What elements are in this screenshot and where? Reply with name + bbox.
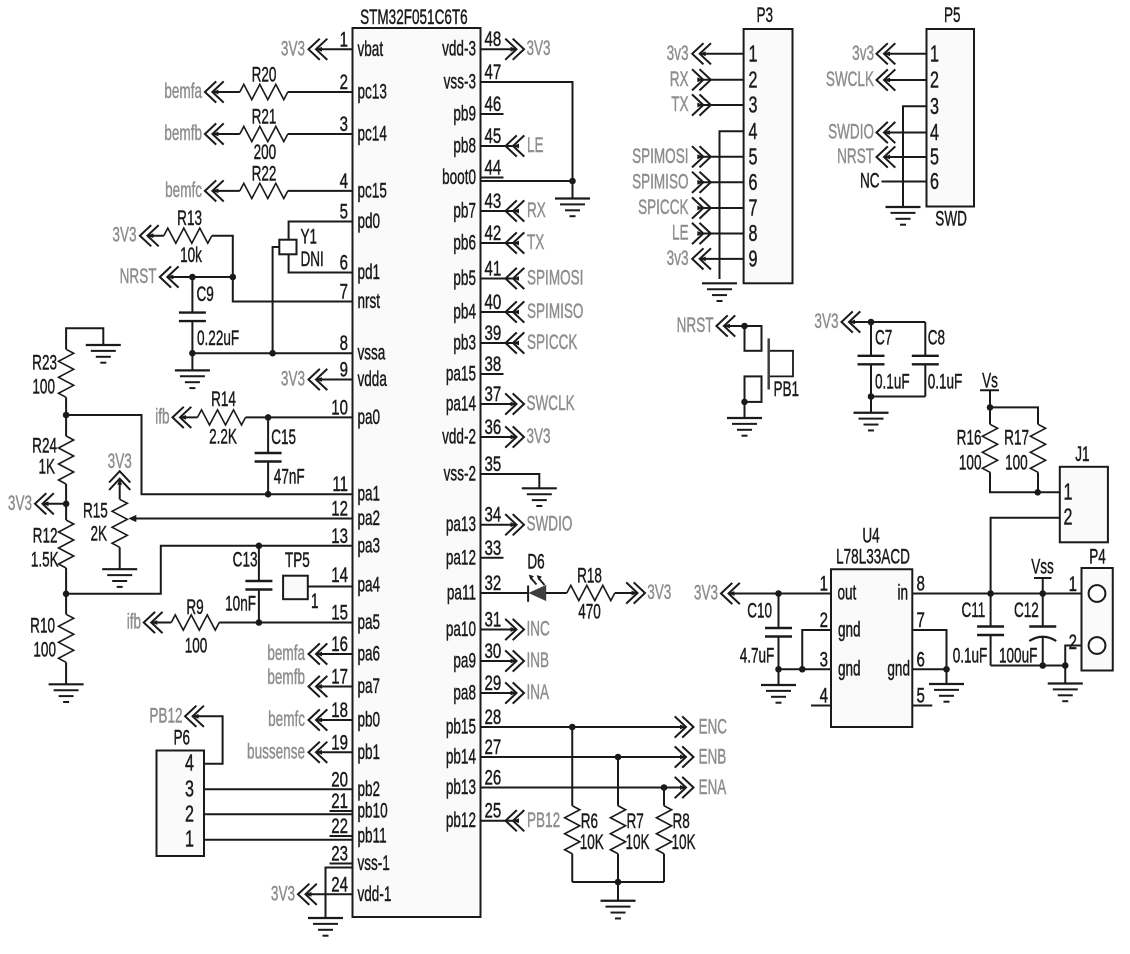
ground at P3	[702, 282, 737, 284]
net 3V3 arrow at pin 1	[281, 36, 327, 60]
svg-text:SPIMOSI: SPIMOSI	[527, 265, 583, 289]
svg-text:R14: R14	[211, 387, 236, 411]
U1 pin 2 pc13	[340, 69, 387, 103]
wire ifb to R9	[151, 622, 171, 624]
junction P4-gnd bus	[1062, 662, 1069, 669]
capacitor C13	[225, 546, 272, 623]
wire P6 pin3 to pb2 pin 20	[204, 788, 353, 790]
connector P4	[1082, 544, 1113, 670]
svg-text:P6: P6	[174, 725, 191, 749]
net INB arrow	[505, 648, 549, 672]
svg-text:vdd-3: vdd-3	[442, 37, 476, 61]
svg-text:47nF: 47nF	[274, 464, 305, 488]
U1 pin 22 pb11	[330, 813, 387, 847]
svg-text:2: 2	[340, 69, 348, 93]
U1 pin 46 pb9	[453, 91, 503, 125]
svg-text:pa9: pa9	[453, 648, 476, 672]
svg-text:R22: R22	[252, 161, 277, 185]
svg-text:pb11: pb11	[358, 823, 387, 847]
U1 pin 10 pa0	[331, 395, 380, 429]
wire U4 gnd to ground	[946, 669, 948, 684]
svg-text:11: 11	[332, 472, 348, 496]
ground at C9	[175, 369, 210, 371]
net 3v3 arrow at P5	[852, 41, 895, 65]
resistor R9	[171, 595, 219, 657]
capacitor C15	[255, 417, 305, 494]
net PB12 arrow at pin 25	[506, 808, 561, 832]
wire 3v3 to P5	[884, 53, 927, 55]
wire ENC to R6	[571, 727, 573, 806]
U1 pin 6 pd1	[340, 250, 380, 284]
capacitor C11	[953, 594, 1004, 668]
net 3v3 arrow at P3	[667, 41, 711, 65]
svg-text:pb2: pb2	[358, 777, 381, 801]
U1 pin 21 pb10	[330, 788, 388, 822]
svg-text:2: 2	[1069, 629, 1077, 653]
svg-text:TX: TX	[671, 92, 688, 116]
svg-text:C9: C9	[197, 282, 214, 306]
junction NRST-PB1	[741, 323, 748, 330]
U1 pin 27 pb14	[446, 734, 501, 768]
ground at PB1	[727, 417, 762, 419]
net 3V3 arrow at ladder	[8, 491, 54, 515]
ground at C10	[761, 684, 796, 686]
junction NRST-C9	[189, 274, 196, 281]
svg-text:pb3: pb3	[453, 330, 476, 354]
svg-text:Vs: Vs	[982, 368, 998, 392]
net 3V3 arrow at U4	[694, 580, 740, 604]
wire RX to P3	[703, 79, 743, 81]
junction 3V3-C10	[775, 590, 782, 597]
svg-text:1.5K: 1.5K	[31, 547, 59, 571]
svg-text:PB1: PB1	[774, 377, 800, 401]
net PB12 arrow at P6	[149, 703, 204, 727]
net LE arrow at P3	[672, 220, 711, 244]
svg-text:5: 5	[340, 199, 348, 223]
svg-text:0.1uF: 0.1uF	[953, 643, 988, 667]
svg-text:7: 7	[340, 279, 348, 303]
svg-text:INA: INA	[527, 680, 550, 704]
wire gnd bus to ground	[1064, 666, 1066, 684]
resistor R21	[240, 104, 288, 163]
net Vss label	[1031, 554, 1054, 578]
capacitor C12 (polarized)	[999, 594, 1056, 668]
U1 pin 14 pa4	[331, 562, 380, 596]
wire C7 to C8 top	[871, 321, 925, 323]
wire to ground boot0	[572, 181, 574, 199]
U1 pin 33 pa12	[446, 535, 504, 569]
svg-text:pc15: pc15	[358, 178, 387, 202]
wire Vss to in net	[1042, 578, 1044, 594]
svg-text:3v3: 3v3	[667, 246, 689, 270]
svg-text:R9: R9	[186, 595, 203, 619]
net SWCLK arrow	[505, 391, 574, 415]
svg-text:3V3: 3V3	[694, 580, 718, 604]
svg-text:vdda: vdda	[358, 367, 387, 391]
net SWCLK arrow at P5	[826, 67, 895, 91]
wire R15 to ground	[119, 547, 121, 569]
svg-text:3V3: 3V3	[527, 424, 551, 448]
svg-text:pa5: pa5	[358, 610, 381, 634]
wire pin to ENA	[481, 787, 687, 789]
svg-text:pa2: pa2	[358, 506, 381, 530]
junction R14-C15	[265, 414, 272, 421]
wire SWCLK pin	[481, 403, 517, 405]
svg-text:39: 39	[485, 320, 502, 344]
wire 3V3 to U4 out	[729, 593, 832, 595]
U1 pin 1 vbat	[340, 27, 383, 61]
U1 pin 5 pd0	[340, 199, 380, 233]
svg-text:C15: C15	[271, 425, 296, 449]
ground at P5	[886, 206, 921, 208]
junction gnd bus	[615, 879, 622, 886]
connector J1	[1060, 442, 1108, 542]
wire C11 C12 gnd bus	[991, 665, 1066, 667]
svg-text:470: 470	[578, 599, 601, 623]
svg-text:18: 18	[331, 697, 348, 721]
svg-text:pc14: pc14	[358, 121, 387, 145]
svg-text:29: 29	[485, 670, 502, 694]
net SPIMOSI arrow at P3	[632, 144, 711, 168]
wire NRST to PB1	[724, 325, 745, 327]
U1 pin 36 vdd-2	[442, 414, 501, 448]
svg-text:2.2K: 2.2K	[209, 424, 237, 448]
wire PB12 to P6 pin 4	[193, 716, 223, 763]
svg-text:pb6: pb6	[453, 230, 476, 254]
svg-text:bemfc: bemfc	[165, 178, 202, 202]
net bemfc arrow	[268, 707, 327, 731]
wire PB12 pin 25	[481, 820, 514, 822]
U1 pin 34 pa13	[446, 502, 501, 536]
ground at U4	[929, 683, 964, 685]
svg-text:41: 41	[485, 256, 502, 280]
U1 pin 48 vdd-3	[442, 27, 501, 61]
wire U4 pin2 gnd	[802, 630, 831, 669]
svg-text:C12: C12	[1014, 598, 1039, 622]
wire gnd bus to ground	[617, 882, 619, 901]
connector P5	[927, 3, 975, 207]
wire R24 to R12	[65, 484, 67, 520]
wire P6 pin2 to pb10 pin 21	[204, 813, 353, 815]
junction boot0-ground	[569, 178, 576, 185]
svg-text:Vss: Vss	[1031, 554, 1054, 578]
resistor R6	[565, 806, 604, 854]
junction 3V3 tap	[63, 501, 70, 508]
crystal Y1 (DNI)	[279, 224, 324, 270]
svg-text:pa14: pa14	[446, 391, 476, 415]
svg-text:TP5: TP5	[285, 548, 310, 572]
svg-text:vss-2: vss-2	[444, 461, 476, 485]
resistor R17	[1004, 424, 1045, 474]
svg-text:3V3: 3V3	[112, 223, 136, 247]
U1 pin 37 pa14	[446, 381, 501, 415]
resistor R10	[30, 613, 74, 662]
wire NC to P5 pin 6	[882, 181, 927, 183]
net Vs label	[980, 368, 999, 392]
net RX arrow at P3	[670, 67, 711, 91]
svg-text:2: 2	[749, 68, 758, 93]
svg-text:LE: LE	[672, 220, 689, 244]
svg-text:3V3: 3V3	[8, 491, 32, 515]
svg-text:45: 45	[485, 123, 502, 147]
net SPIMISO arrow	[506, 299, 584, 323]
svg-text:pb13: pb13	[446, 775, 476, 799]
wire RX pin	[481, 210, 514, 212]
net INC arrow	[505, 616, 550, 640]
wire SWDIO pin 34	[481, 524, 517, 526]
U1 pin 11 pa1	[332, 472, 380, 506]
U1 pin 42 pb6	[453, 220, 501, 254]
net NRST arrow	[120, 264, 179, 288]
svg-text:10K: 10K	[580, 830, 604, 854]
junction C7-ground	[868, 393, 875, 400]
svg-text:34: 34	[485, 502, 502, 526]
svg-text:bussense: bussense	[247, 739, 305, 763]
svg-text:12: 12	[331, 496, 348, 520]
wire SPIMOSI pin	[481, 278, 514, 280]
wire pin to ENC	[481, 726, 687, 728]
svg-text:SWCLK: SWCLK	[527, 391, 575, 415]
svg-text:SPIMISO: SPIMISO	[632, 169, 688, 193]
wire Vs to R16	[989, 407, 991, 424]
wire R16 bottom to J1 pin1	[990, 472, 1060, 492]
svg-text:R20: R20	[252, 62, 277, 86]
svg-text:7: 7	[917, 607, 925, 631]
svg-text:3: 3	[340, 111, 348, 135]
net ifb arrow at R9	[127, 609, 163, 633]
net SWDIO arrow	[505, 512, 572, 536]
svg-text:17: 17	[331, 664, 348, 688]
svg-text:3v3: 3v3	[667, 41, 689, 65]
resistor R12	[31, 520, 74, 571]
ground at vss-2	[522, 487, 557, 489]
wire R13 to nrst pin 7	[212, 236, 353, 302]
U1 pin 39 pb3	[453, 320, 501, 354]
wire bemfb to R21	[212, 133, 239, 135]
wire R12 to R10	[65, 568, 67, 614]
wire U4 pin6 gnd	[912, 668, 946, 670]
U1 pin 28 pb15	[446, 704, 501, 738]
wire R8 to gnd bus	[663, 854, 665, 882]
svg-text:pb12: pb12	[446, 808, 476, 832]
svg-text:pb15: pb15	[446, 714, 476, 738]
svg-text:SWDIO: SWDIO	[828, 119, 874, 143]
wire R15 wiper to pa2 pin 12	[135, 518, 352, 520]
wire R6 to gnd bus	[571, 854, 573, 882]
svg-text:15: 15	[331, 600, 348, 624]
svg-text:100uF: 100uF	[999, 643, 1037, 667]
wire ifb to R14	[180, 416, 198, 418]
svg-text:3: 3	[749, 93, 758, 118]
junction ENC-R6	[569, 724, 576, 731]
junction pin2-pin3 gnd	[799, 666, 806, 673]
push button PB1	[745, 326, 800, 402]
svg-text:16: 16	[331, 631, 348, 655]
svg-text:pa15: pa15	[446, 361, 476, 385]
svg-text:R10: R10	[30, 613, 55, 637]
wire 3V3 to ladder	[43, 503, 67, 505]
svg-text:2: 2	[930, 68, 939, 93]
wire vss-2 pin 35 to ground	[481, 474, 540, 488]
wire SWCLK to P5	[884, 79, 927, 81]
svg-text:NRST: NRST	[120, 264, 157, 288]
svg-text:8: 8	[340, 331, 348, 355]
svg-text:44: 44	[485, 155, 502, 179]
net TX arrow	[506, 230, 545, 254]
svg-text:10K: 10K	[626, 830, 650, 854]
svg-text:pb8: pb8	[453, 133, 476, 157]
svg-text:NRST: NRST	[837, 144, 874, 168]
junction 3V3-C7	[868, 319, 875, 326]
svg-text:bemfa: bemfa	[267, 641, 305, 665]
svg-text:LE: LE	[527, 133, 544, 157]
svg-text:pd1: pd1	[358, 260, 381, 284]
svg-text:4.7uF: 4.7uF	[740, 643, 775, 667]
svg-text:pb0: pb0	[358, 707, 381, 731]
svg-text:C13: C13	[233, 547, 258, 571]
svg-text:R23: R23	[32, 350, 57, 374]
wire SWDIO to P5	[884, 132, 927, 134]
svg-text:Y1: Y1	[301, 224, 318, 248]
svg-text:37: 37	[485, 381, 502, 405]
junction R17-J1	[1034, 489, 1041, 496]
svg-text:7: 7	[749, 196, 758, 221]
svg-text:1K: 1K	[38, 454, 55, 478]
wire R22 to pin 4	[288, 190, 353, 192]
wire 3V3 to R13	[147, 235, 163, 237]
net INA arrow	[505, 680, 549, 704]
svg-text:pc13: pc13	[358, 79, 387, 103]
U1 pin 30 pa9	[453, 638, 501, 672]
junction in-C12	[1039, 590, 1046, 597]
U1 pin 23 vss-1	[330, 841, 390, 875]
wire bussense pin	[316, 751, 353, 753]
svg-text:SWD: SWD	[935, 206, 967, 230]
junction in-C11	[987, 590, 994, 597]
svg-text:SWCLK: SWCLK	[826, 67, 874, 91]
wire INB pin	[481, 660, 517, 662]
wire ENB to R7	[617, 757, 619, 806]
U4 pin 5	[912, 683, 932, 707]
svg-text:1: 1	[340, 27, 348, 51]
wire U4 in to P4 pin1	[912, 593, 1088, 595]
net 3V3 arrow at pin 24	[271, 881, 317, 905]
svg-text:pa6: pa6	[358, 641, 381, 665]
junction ENA-R8	[661, 784, 668, 791]
svg-text:5: 5	[930, 145, 939, 170]
svg-text:pb1: pb1	[358, 740, 381, 764]
svg-text:C10: C10	[747, 598, 772, 622]
wire SPIMISO pin	[481, 311, 514, 313]
svg-text:28: 28	[485, 704, 502, 728]
svg-text:43: 43	[485, 188, 502, 212]
svg-text:4: 4	[185, 751, 194, 776]
wire R10 to ground	[65, 662, 67, 684]
svg-text:27: 27	[485, 734, 502, 758]
svg-text:6: 6	[930, 169, 939, 194]
wire R14 to pa0 pin 10	[246, 416, 353, 418]
junction Vs node	[987, 404, 994, 411]
junction R12-R10 tap	[63, 591, 70, 598]
net 3V3 arrow	[505, 424, 550, 448]
svg-text:2: 2	[185, 802, 194, 827]
svg-text:100: 100	[33, 637, 56, 661]
junction C9-vssa	[189, 350, 196, 357]
svg-text:9: 9	[749, 247, 758, 272]
U1 pin 29 pa8	[453, 670, 501, 704]
U1 pin 17 pa7	[331, 664, 380, 698]
svg-text:pa11: pa11	[447, 580, 476, 604]
wire 3V3 to C7	[849, 321, 871, 323]
svg-text:ENB: ENB	[699, 744, 727, 768]
svg-text:gnd: gnd	[838, 617, 861, 641]
svg-text:9: 9	[340, 357, 348, 381]
svg-text:R21: R21	[252, 104, 277, 128]
svg-text:STM32F051C6T6: STM32F051C6T6	[360, 5, 468, 29]
wire INC pin	[481, 629, 517, 631]
resistor R13	[164, 206, 212, 267]
svg-text:bemfb: bemfb	[164, 121, 202, 145]
svg-text:22: 22	[331, 813, 348, 837]
U1 pin 7 nrst	[340, 279, 380, 313]
svg-text:ifb: ifb	[127, 609, 141, 633]
svg-text:10K: 10K	[672, 830, 696, 854]
net RX arrow	[506, 198, 546, 222]
svg-text:vss-1: vss-1	[358, 851, 390, 875]
wire C7 C8 bottom	[871, 396, 925, 398]
U1 pin 47 vss-3	[444, 59, 502, 93]
svg-text:pa0: pa0	[358, 405, 381, 429]
svg-text:bemfc: bemfc	[268, 707, 305, 731]
ground at R23 top	[86, 344, 121, 346]
net 3V3 arrow at C7	[814, 309, 860, 333]
svg-text:3: 3	[820, 647, 828, 671]
svg-text:10: 10	[331, 395, 348, 419]
net bemfc arrow at pin 4	[165, 178, 224, 202]
svg-text:100: 100	[1005, 450, 1028, 474]
svg-text:4: 4	[340, 168, 348, 192]
wire vssa pin 8	[192, 352, 352, 354]
resistor R18	[567, 563, 615, 623]
wire NRST to P5	[884, 156, 927, 158]
resistor R22	[240, 161, 288, 198]
net 3V3 arrow at R18	[626, 580, 671, 604]
U1 pin 35 vss-2	[444, 451, 502, 485]
wire pin 48	[481, 48, 517, 50]
net NRST arrow at PB1	[677, 313, 736, 337]
wire Y1 to vssa net	[273, 247, 280, 353]
svg-text:23: 23	[331, 841, 348, 865]
wire R20 to pin 2	[288, 91, 353, 93]
U1 pin 15 pa5	[331, 600, 380, 634]
wire ladder tap to pa1 pin 11	[66, 415, 352, 494]
resistor R24	[32, 433, 74, 484]
U1 pin 12 pa2	[331, 496, 380, 530]
wire SPICCK to P3	[703, 207, 743, 209]
U1 pin 13 pa3	[331, 523, 380, 557]
wire INA pin	[481, 692, 517, 694]
wire bemfc pin	[316, 719, 353, 721]
svg-text:3V3: 3V3	[814, 309, 838, 333]
svg-text:pb7: pb7	[453, 198, 476, 222]
resistor R8	[656, 806, 695, 854]
svg-text:TX: TX	[527, 230, 544, 254]
IC U1 STM32F051C6T6 body	[353, 5, 481, 917]
wire gnd bus R6-R8	[572, 881, 664, 883]
wire bemfa pin	[316, 653, 353, 655]
svg-text:100: 100	[185, 633, 208, 657]
svg-text:1: 1	[1064, 480, 1073, 505]
